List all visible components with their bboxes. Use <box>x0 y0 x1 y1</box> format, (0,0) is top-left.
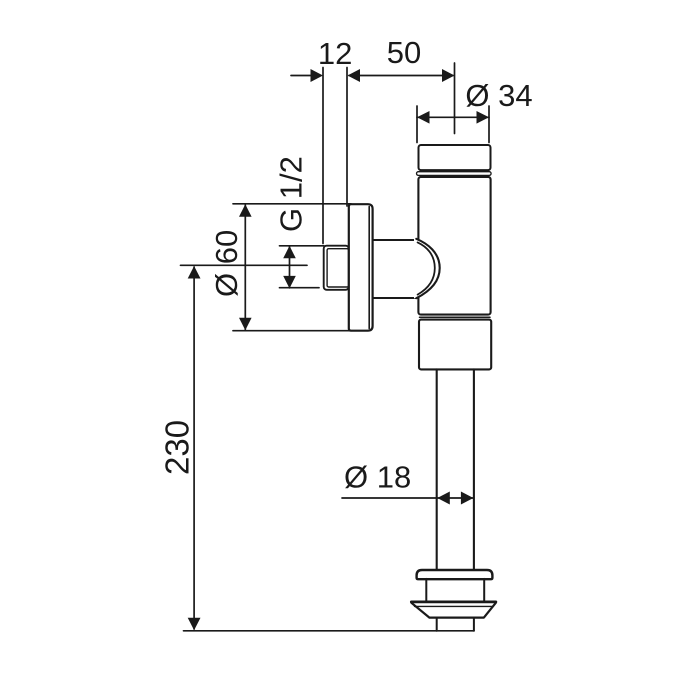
dimension G 1/2: bottom extension line <box>280 287 320 289</box>
inlet dome inner contour <box>418 242 435 294</box>
valve lower body <box>419 320 491 370</box>
outlet pipe right line <box>473 369 475 570</box>
svg-text:G 1/2: G 1/2 <box>274 156 309 232</box>
dimension D18: leader line <box>342 497 473 499</box>
dimension 230: bottom arrow <box>188 618 201 631</box>
dimension 12: left outside arrow <box>311 69 324 82</box>
svg-text:Ø 34: Ø 34 <box>465 78 532 113</box>
dimension D34: dimension line <box>417 116 489 118</box>
inlet dome outer contour <box>416 239 439 298</box>
valve vertical centerline <box>454 63 456 134</box>
svg-text:Ø 60: Ø 60 <box>209 230 244 297</box>
dimension G 1/2: up arrow <box>283 246 296 258</box>
dimension G 1/2: dimension line <box>289 246 291 288</box>
dimension 12: extension line left <box>322 68 324 244</box>
inlet pipe bottom line <box>373 297 417 299</box>
dimension 50: right arrow <box>442 69 455 82</box>
valve top cap <box>419 145 491 170</box>
dimension 12: tail line <box>291 75 312 77</box>
dimension D34: left arrow <box>417 111 430 124</box>
outlet rosette stem left <box>425 579 427 601</box>
dimension D60: top extension line <box>233 203 351 205</box>
dimension D60: dimension line <box>244 205 246 330</box>
outlet bell plate under line <box>415 605 493 607</box>
dimension D18: left arrow <box>437 492 450 505</box>
dimension 230: top arrow <box>188 266 201 279</box>
outlet pipe left line <box>436 369 438 570</box>
outlet bell plate thick top line <box>411 601 496 604</box>
dimension 12: extension line right <box>346 68 348 207</box>
valve main body <box>418 177 490 315</box>
horizontal pipe centerline <box>181 264 308 266</box>
valve knurled ring <box>417 172 492 176</box>
outlet bell trapezoid <box>411 603 495 618</box>
outlet pipe end left <box>436 618 438 631</box>
dimension 50: left arrow <box>348 69 361 82</box>
dimension D34: extension line left <box>416 106 418 143</box>
svg-text:Ø 18: Ø 18 <box>344 460 411 495</box>
dimension D34: right arrow <box>477 111 490 124</box>
G 1/2 connection nut inner line <box>327 249 349 287</box>
dimension 50: dimension line <box>349 75 453 77</box>
dimension D60: top arrow <box>239 204 252 217</box>
outlet rosette stem right <box>483 579 485 601</box>
dimension D34: extension line right <box>488 106 490 143</box>
inlet dome white mask <box>414 239 440 299</box>
svg-text:12: 12 <box>318 36 352 71</box>
valve body parting line <box>420 316 491 318</box>
dimension D60: bottom arrow <box>239 318 252 331</box>
wall flange inner edge line <box>368 207 370 329</box>
outlet pipe end right <box>473 618 475 631</box>
dimension G 1/2: top extension line <box>280 245 325 247</box>
inlet pipe top line <box>373 239 417 241</box>
dimension G 1/2: down arrow <box>283 276 296 289</box>
wall flange plate <box>349 204 373 331</box>
outlet rosette cap <box>417 570 493 579</box>
dimension 230: dimension line <box>193 267 195 629</box>
G 1/2 connection nut outer <box>324 246 349 290</box>
svg-text:50: 50 <box>387 35 421 70</box>
dimension D18: right arrow <box>461 492 474 505</box>
dimension D60: bottom extension line <box>233 330 351 332</box>
dimension 230: bottom extension line <box>184 630 475 632</box>
svg-text:230: 230 <box>159 420 196 475</box>
